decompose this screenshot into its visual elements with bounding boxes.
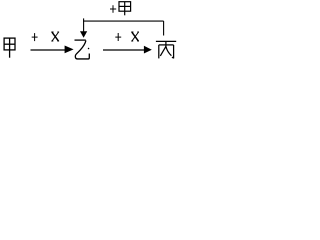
label +X (second arrow condition) bbox=[115, 33, 121, 41]
node 丙 (right product glyph) bbox=[156, 41, 176, 58]
label 甲 (top condition glyph) bbox=[119, 2, 131, 16]
node 乙 (middle glyph) bbox=[75, 40, 90, 59]
wire arrow2 (乙 to 丙) bbox=[103, 46, 152, 54]
label X1 glyph bbox=[51, 32, 59, 41]
label X2 glyph bbox=[131, 32, 139, 41]
label +甲 (top condition) : plus bbox=[110, 5, 116, 13]
node 甲 (left reactant glyph) bbox=[4, 38, 15, 58]
wire top bracket (乙 feedback line) bbox=[83, 18, 164, 35]
arrowhead down into 乙 bbox=[80, 31, 87, 37]
label +X (first arrow condition) bbox=[32, 33, 38, 41]
wire arrow1 (甲 to 乙) bbox=[31, 46, 74, 54]
